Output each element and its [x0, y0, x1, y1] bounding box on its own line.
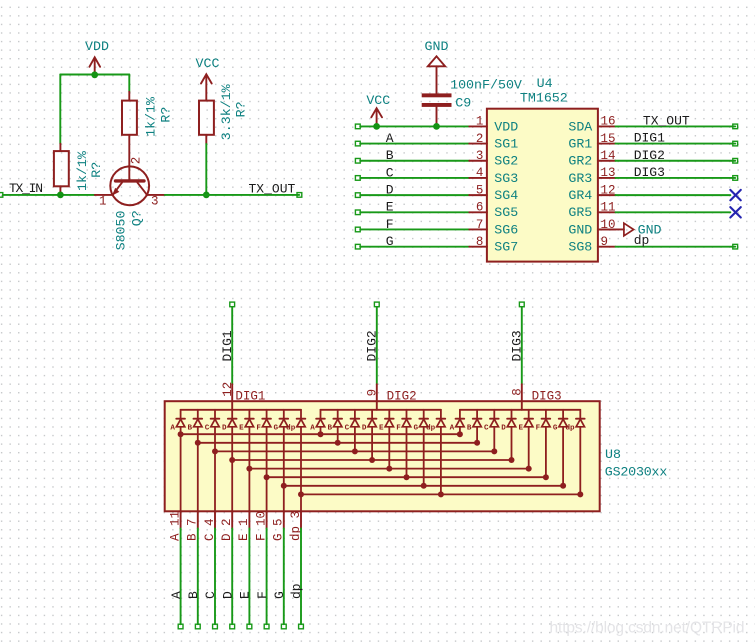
wire GR5 (pin 11): [616, 211, 731, 213]
svg-text:1k/1%: 1k/1%: [75, 151, 90, 191]
pin 2 D (bottom): [220, 511, 234, 541]
transistor Q? S8050: [95, 135, 165, 251]
wire segment A common rail: [181, 433, 460, 435]
svg-text:2: 2: [476, 132, 484, 146]
svg-text:G: G: [272, 591, 287, 599]
svg-text:A: A: [450, 425, 455, 433]
wire digit 2 segment E cathode: [388, 427, 390, 469]
svg-text:B: B: [467, 425, 472, 433]
svg-text:C: C: [484, 425, 489, 433]
power symbol VCC (TM1652): [366, 93, 390, 126]
wire digit 2 segment A cathode: [320, 427, 322, 434]
pin 11 A (bottom): [168, 511, 182, 541]
svg-text:SG2: SG2: [494, 154, 518, 169]
svg-text:3: 3: [151, 195, 159, 209]
junction digit 2 segment B: [335, 440, 341, 446]
LED digit 2 segment B: [327, 410, 342, 433]
wire digit 1 segment D cathode: [231, 427, 233, 512]
power symbol GND (top): [425, 39, 449, 94]
junction digit 1 segment dp: [298, 491, 304, 497]
svg-text:DIG3: DIG3: [509, 330, 524, 361]
svg-text:F: F: [396, 425, 401, 433]
wire digit 3 segment E cathode: [528, 427, 530, 469]
svg-text:C: C: [386, 165, 394, 180]
wire digit 1 segment G cathode: [283, 427, 285, 512]
pin 4 C (bottom): [203, 511, 217, 541]
svg-text:E: E: [379, 425, 384, 433]
svg-text:C: C: [203, 591, 218, 599]
LED digit 3 segment D: [501, 410, 516, 433]
net label D (vertical): [220, 591, 235, 599]
wire segment E common rail: [249, 468, 528, 470]
pin 15 GR1 (right): [568, 132, 615, 152]
pin 16 SDA (right): [568, 115, 615, 135]
wire digit 3 segment C cathode: [493, 427, 495, 452]
wire VDD rail to collector resistor: [128, 75, 130, 92]
svg-text:C9: C9: [455, 96, 471, 111]
svg-text:6: 6: [476, 201, 484, 215]
svg-text:VCC: VCC: [196, 56, 220, 71]
pin 11 GR5 (right): [568, 201, 615, 221]
junction digit 1 segment B: [195, 440, 201, 446]
svg-text:D: D: [222, 425, 227, 433]
junction digit 3 segment D: [509, 457, 515, 463]
wire segment input B: [355, 158, 469, 163]
junction digit 3 segment A: [457, 431, 463, 437]
LED digit 2 segment dp: [426, 410, 445, 433]
LED digit 2 segment C: [345, 410, 360, 433]
svg-text:8: 8: [510, 388, 524, 396]
LED digit 1 segment D: [222, 410, 237, 433]
svg-text:13: 13: [601, 166, 616, 180]
svg-text:dp: dp: [426, 425, 436, 433]
pin 8 DIG3 (top): [510, 384, 561, 410]
svg-text:U8: U8: [605, 447, 621, 462]
wire digit 2 segment F cathode: [406, 427, 408, 477]
svg-text:dp: dp: [286, 425, 296, 433]
wire digit 3 segment A cathode: [459, 427, 461, 434]
svg-text:F: F: [536, 425, 541, 433]
svg-text:R?: R?: [158, 107, 173, 123]
net label TX_IN: [9, 181, 43, 196]
power symbol VCC (transistor stage): [196, 56, 220, 101]
svg-text:GR3: GR3: [568, 171, 592, 186]
svg-text:R?: R?: [234, 101, 249, 117]
junction digit 3 segment dp: [577, 491, 583, 497]
LED digit 1 segment A: [170, 410, 185, 433]
svg-text:D: D: [386, 183, 394, 198]
svg-text:TX_OUT: TX_OUT: [249, 181, 296, 196]
IC U4 TM1652 body: [487, 76, 598, 262]
junction digit 3 segment E: [526, 466, 532, 472]
svg-text:SG6: SG6: [494, 222, 518, 237]
wire segment input G: [355, 244, 469, 249]
resistor R? 1k/1% (middle, collector): [122, 92, 173, 137]
svg-text:E: E: [238, 591, 253, 599]
wire DIG3 feeder: [519, 302, 524, 384]
junction at base resistor / TX_IN: [57, 192, 64, 199]
wire digit 2 segment B cathode: [337, 427, 339, 443]
svg-text:1k/1%: 1k/1%: [144, 97, 159, 137]
pin 5 SG4 (left): [469, 183, 518, 203]
junction digit 3 segment C: [491, 448, 497, 454]
svg-text:1: 1: [476, 115, 484, 129]
svg-text:12: 12: [221, 382, 235, 397]
junction digit 2 segment C: [352, 448, 358, 454]
junction at C9 (pin1 net): [433, 123, 440, 130]
capacitor C9 100nF/50V: [422, 77, 522, 126]
wire TX_IN: [0, 193, 95, 198]
junction digit 3 segment F: [543, 474, 549, 480]
wire DIG1 (pin 15): [616, 141, 738, 146]
wire segment input F: [355, 227, 469, 232]
svg-text:DIG2: DIG2: [634, 148, 665, 163]
pin 12 GR4 (right): [568, 183, 615, 203]
wire DIG1 feeder: [230, 302, 235, 384]
svg-text:B: B: [327, 425, 332, 433]
wire pull-up to TX_OUT: [205, 144, 207, 195]
net label dp: [634, 233, 650, 248]
svg-text:A: A: [169, 591, 184, 599]
no-connect X (pin 11): [730, 207, 741, 217]
LED digit 2 segment D: [362, 410, 377, 433]
svg-text:GR2: GR2: [568, 154, 592, 169]
net label B: [386, 148, 394, 163]
net label D: [386, 183, 394, 198]
LED digit 1 segment C: [205, 410, 220, 433]
svg-text:SG1: SG1: [494, 136, 518, 151]
wire VCC to pin 1 (VDD): [355, 124, 469, 129]
svg-text:B: B: [188, 425, 193, 433]
svg-text:SDA: SDA: [568, 119, 592, 134]
wire GR4 (pin 12): [616, 194, 731, 196]
svg-text:G: G: [553, 425, 558, 433]
pin 14 GR2 (right): [568, 149, 615, 169]
LED digit 3 segment E: [518, 410, 533, 433]
svg-text:GS2030xx: GS2030xx: [605, 464, 668, 479]
svg-text:GR5: GR5: [568, 205, 592, 220]
wire segment G common rail: [284, 485, 563, 487]
pin 1 E (bottom): [237, 511, 251, 541]
svg-text:R?: R?: [89, 162, 104, 178]
LED digit 1 segment G: [274, 410, 289, 433]
svg-text:B: B: [186, 591, 201, 599]
wire digit 3 segment G cathode: [562, 427, 564, 486]
svg-text:8: 8: [476, 235, 484, 249]
junction at VDD arrow: [91, 71, 98, 78]
svg-text:A: A: [386, 131, 394, 146]
pin 6 SG5 (left): [469, 201, 518, 221]
wire digit 1 anode bus: [181, 409, 301, 411]
net label G: [386, 234, 394, 249]
wire digit 3 segment dp cathode: [579, 427, 581, 495]
net label TX_OUT: [249, 181, 296, 196]
wire TX_OUT: [165, 193, 302, 198]
net label E (vertical): [238, 591, 253, 599]
svg-text:7: 7: [476, 218, 484, 232]
pin 3 SG2 (left): [469, 149, 518, 169]
svg-text:VDD: VDD: [85, 39, 109, 54]
svg-text:12: 12: [601, 183, 616, 197]
net label DIG3: [634, 165, 665, 180]
svg-text:9: 9: [365, 389, 379, 397]
wire digit 3 anode bus: [460, 409, 580, 411]
svg-text:3: 3: [476, 149, 484, 163]
LED digit 2 segment G: [413, 410, 428, 433]
svg-text:SG8: SG8: [568, 240, 592, 255]
wire segment B common rail: [198, 442, 477, 444]
junction digit 1 segment C: [212, 448, 218, 454]
LED digit 3 segment A: [450, 410, 465, 433]
pin 8 SG7 (left): [469, 235, 518, 255]
wire segment dp output: [299, 529, 304, 629]
LED digit 3 segment dp: [565, 410, 584, 433]
svg-text:VCC: VCC: [366, 93, 390, 108]
svg-text:5: 5: [476, 183, 484, 197]
svg-text:DIG1: DIG1: [220, 330, 235, 361]
svg-text:14: 14: [601, 149, 616, 163]
svg-text:E: E: [239, 425, 244, 433]
svg-text:DIG1: DIG1: [634, 131, 665, 146]
svg-text:GND: GND: [425, 39, 449, 54]
no-connect X (pin 12): [730, 190, 741, 200]
LED digit 3 segment B: [467, 410, 482, 433]
resistor R? 1k/1% (left, base): [54, 144, 104, 195]
net label C: [386, 165, 394, 180]
wire pin 10 to GND label: [598, 228, 624, 230]
power symbol VDD: [85, 39, 109, 75]
pin 10 F (bottom): [254, 511, 268, 541]
junction digit 1 segment D: [229, 457, 235, 463]
net label DIG2: [634, 148, 665, 163]
svg-text:16: 16: [601, 115, 616, 129]
junction digit 2 segment D: [369, 457, 375, 463]
svg-text:GR4: GR4: [568, 188, 592, 203]
svg-text:D: D: [220, 591, 235, 599]
wire digit 2 segment dp cathode: [440, 427, 442, 495]
svg-text:G: G: [386, 234, 394, 249]
LED digit 3 segment G: [553, 410, 568, 433]
junction at VCC arrow (pin1 net): [373, 123, 380, 130]
pin 7 SG6 (left): [469, 218, 518, 238]
net label G (vertical): [272, 591, 287, 599]
svg-text:9: 9: [601, 235, 609, 249]
net label F (vertical): [255, 591, 270, 599]
svg-text:E: E: [386, 200, 394, 215]
net label DIG1 (vertical): [220, 330, 235, 361]
svg-text:3.3k/1%: 3.3k/1%: [219, 84, 234, 140]
net label F: [386, 217, 394, 232]
pin 9 DIG2 (top): [365, 384, 416, 410]
svg-text:F: F: [255, 591, 270, 599]
net label DIG3 (vertical): [509, 330, 524, 361]
LED digit 2 segment A: [310, 410, 325, 433]
svg-text:DIG3: DIG3: [532, 390, 562, 404]
wire segment input E: [355, 210, 469, 215]
svg-text:SG4: SG4: [494, 188, 518, 203]
svg-text:TX_OUT: TX_OUT: [643, 114, 690, 129]
svg-text:E: E: [518, 425, 523, 433]
wire segment C common rail: [215, 450, 494, 452]
svg-text:S8050: S8050: [114, 210, 129, 250]
wire digit 2 anode bus: [321, 409, 441, 411]
wire digit 1 segment F cathode: [266, 427, 268, 512]
net label dp (vertical): [289, 583, 304, 599]
wire segment input D: [355, 193, 469, 198]
junction at pull-up / TX_OUT: [203, 192, 210, 199]
svg-text:dp: dp: [634, 233, 650, 248]
junction digit 1 segment F: [264, 474, 270, 480]
svg-text:TM1652: TM1652: [520, 91, 568, 106]
svg-text:F: F: [386, 217, 394, 232]
net label DIG1: [634, 131, 665, 146]
svg-text:https://blog.csdn.net/QTRPid: https://blog.csdn.net/QTRPid: [550, 620, 745, 637]
wire DIG2 (pin 14): [616, 158, 738, 163]
wire digit 1 segment E cathode: [248, 427, 250, 512]
junction digit 2 segment E: [386, 466, 392, 472]
pin 10 GND (right): [568, 218, 615, 238]
svg-text:G: G: [274, 425, 279, 433]
junction digit 2 segment dp: [438, 491, 444, 497]
wire segment D common rail: [232, 459, 511, 461]
svg-text:DIG2: DIG2: [387, 390, 417, 404]
wire segment input C: [355, 176, 469, 181]
watermark text: [550, 620, 745, 637]
wire digit 3 segment F cathode: [545, 427, 547, 477]
wire VDD horizontal rail: [60, 74, 129, 76]
junction digit 2 segment G: [421, 483, 427, 489]
net label B (vertical): [186, 591, 201, 599]
wire digit 1 segment B cathode: [197, 427, 199, 512]
hierarchical label GND (pin 10): [624, 223, 662, 238]
junction digit 3 segment B: [474, 440, 480, 446]
svg-text:15: 15: [601, 132, 616, 146]
wire dp (pin 9): [616, 244, 738, 249]
pin 4 SG3 (left): [469, 166, 518, 186]
svg-text:VDD: VDD: [494, 119, 518, 134]
net label C (vertical): [203, 591, 218, 599]
wire segment E output: [247, 529, 252, 629]
svg-text:11: 11: [601, 201, 616, 215]
wire TX_OUT (pin 16): [616, 124, 738, 129]
wire DIG3 (pin 13): [616, 176, 738, 181]
wire digit 1 segment dp cathode: [300, 427, 302, 512]
wire digit 2 segment D cathode: [371, 427, 373, 460]
svg-text:2: 2: [129, 157, 143, 165]
LED display U8 GS2030xx body: [165, 401, 668, 511]
wire digit 1 segment C cathode: [214, 427, 216, 512]
LED digit 3 segment C: [484, 410, 499, 433]
wire segment G output: [281, 529, 286, 629]
svg-text:dp: dp: [565, 425, 575, 433]
svg-text:DIG2: DIG2: [364, 330, 379, 361]
LED digit 3 segment F: [536, 410, 551, 433]
svg-text:DIG3: DIG3: [634, 165, 665, 180]
wire segment F output: [264, 529, 269, 629]
junction digit 2 segment F: [404, 474, 410, 480]
junction digit 1 segment A: [178, 431, 184, 437]
net label A (vertical): [169, 591, 184, 599]
resistor R? 3.3k/1% (pull-up): [199, 84, 249, 144]
wire VDD rail to left resistor: [59, 75, 61, 144]
wire segment C output: [213, 529, 218, 629]
svg-text:U4: U4: [537, 76, 553, 91]
net label A: [386, 131, 394, 146]
pin 9 SG8 (right): [568, 235, 615, 255]
pin 3 dp (bottom): [289, 511, 303, 541]
svg-text:TX_IN: TX_IN: [9, 181, 43, 196]
wire segment input A: [355, 141, 469, 146]
pin 5 G (bottom): [272, 511, 286, 541]
svg-text:1: 1: [99, 195, 107, 209]
svg-text:4: 4: [476, 166, 484, 180]
svg-text:DIG1: DIG1: [235, 390, 265, 404]
svg-text:C: C: [205, 425, 210, 433]
wire segment A output: [178, 529, 183, 629]
pin 2 SG1 (left): [469, 132, 518, 152]
wire digit 3 segment B cathode: [476, 427, 478, 443]
wire segment F common rail: [267, 476, 546, 478]
wire segment D output: [230, 529, 235, 629]
wire segment dp common rail: [301, 493, 580, 495]
svg-text:GR1: GR1: [568, 136, 592, 151]
svg-text:SG5: SG5: [494, 205, 518, 220]
pin 12 DIG1 (top): [221, 382, 266, 410]
svg-text:D: D: [362, 425, 367, 433]
svg-text:F: F: [256, 425, 261, 433]
wire digit 2 segment G cathode: [423, 427, 425, 486]
svg-text:SG3: SG3: [494, 171, 518, 186]
junction digit 1 segment G: [281, 483, 287, 489]
LED digit 1 segment E: [239, 410, 254, 433]
net label TX_OUT: [643, 114, 690, 129]
wire digit 2 segment C cathode: [354, 427, 356, 452]
svg-text:GND: GND: [568, 222, 592, 237]
svg-text:SG7: SG7: [494, 240, 518, 255]
junction digit 2 segment A: [318, 431, 324, 437]
svg-text:G: G: [413, 425, 418, 433]
junction digit 1 segment E: [246, 466, 252, 472]
svg-text:Q?: Q?: [130, 210, 145, 226]
LED digit 1 segment dp: [286, 410, 305, 433]
LED digit 1 segment F: [256, 410, 271, 433]
svg-text:C: C: [345, 425, 350, 433]
svg-text:dp: dp: [289, 583, 304, 599]
wire DIG2 feeder: [374, 302, 379, 384]
wire segment B output: [195, 529, 200, 629]
LED digit 2 segment F: [396, 410, 411, 433]
wire digit 3 segment D cathode: [511, 427, 513, 460]
wire digit 1 segment A cathode: [180, 427, 182, 512]
pin 7 B (bottom): [186, 511, 200, 541]
LED digit 2 segment E: [379, 410, 394, 433]
pin 13 GR3 (right): [568, 166, 615, 186]
svg-text:D: D: [501, 425, 506, 433]
net label E: [386, 200, 394, 215]
svg-text:A: A: [170, 425, 175, 433]
pin 1 VDD (left): [469, 115, 518, 135]
junction digit 3 segment G: [560, 483, 566, 489]
svg-text:B: B: [386, 148, 394, 163]
svg-text:100nF/50V: 100nF/50V: [450, 77, 522, 92]
svg-text:A: A: [310, 425, 315, 433]
net label DIG2 (vertical): [364, 330, 379, 361]
LED digit 1 segment B: [188, 410, 203, 433]
